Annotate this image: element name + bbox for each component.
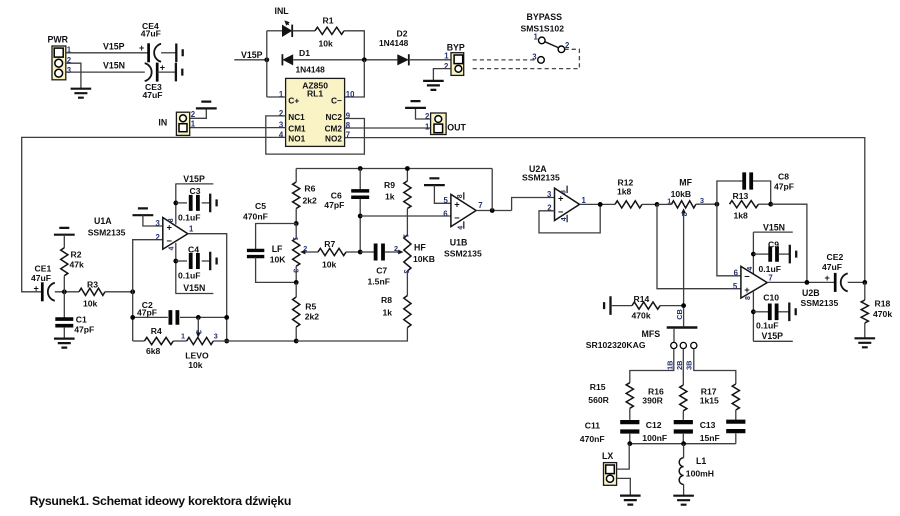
svg-text:−: − bbox=[167, 235, 173, 246]
svg-text:C3: C3 bbox=[190, 186, 201, 196]
op-amp U1A SSM2135 bbox=[88, 216, 194, 250]
wire U1A power bottom to C4 node bbox=[175, 243, 177, 294]
wire C6 to U1B pin6 bbox=[360, 215, 451, 217]
svg-text:100nF: 100nF bbox=[642, 433, 667, 443]
ground right of C10 bbox=[789, 303, 795, 322]
svg-text:2k2: 2k2 bbox=[305, 312, 320, 322]
svg-text:4: 4 bbox=[561, 217, 568, 221]
capacitor C6 47pF bbox=[324, 169, 369, 253]
node C2 left junction bbox=[130, 315, 135, 320]
svg-text:C7: C7 bbox=[376, 266, 387, 276]
node C4 junction bbox=[173, 259, 178, 264]
svg-text:V15N: V15N bbox=[763, 222, 785, 232]
svg-text:2: 2 bbox=[444, 62, 449, 71]
connector IN bbox=[158, 110, 195, 135]
capacitor C2 47pF bbox=[133, 300, 227, 325]
node C11/LX junction bbox=[627, 441, 632, 446]
relay RL1 AZ850 bbox=[286, 78, 345, 146]
node C6 / U1B pin6 junction bbox=[358, 214, 363, 219]
svg-text:47pF: 47pF bbox=[774, 182, 794, 192]
node R7/C7 junction bbox=[358, 250, 363, 255]
resistor R15 560R bbox=[588, 382, 633, 420]
svg-text:47pF: 47pF bbox=[324, 200, 344, 210]
svg-text:2: 2 bbox=[155, 233, 160, 242]
capacitor C5 470nF bbox=[243, 201, 296, 282]
svg-text:NO2: NO2 bbox=[325, 135, 342, 144]
switch MFS SR102320KAG bbox=[586, 309, 698, 370]
svg-text:47uF: 47uF bbox=[143, 90, 163, 100]
svg-text:CM2: CM2 bbox=[325, 125, 343, 134]
svg-text:HF: HF bbox=[414, 243, 426, 253]
svg-text:6: 6 bbox=[734, 268, 739, 277]
wire relay CM2 to OUT pin1 bbox=[345, 127, 431, 129]
wire MF pin3 to R13 node bbox=[696, 203, 717, 205]
potentiometer MF 10kB bbox=[657, 178, 704, 327]
svg-text:6: 6 bbox=[443, 210, 448, 219]
svg-text:8: 8 bbox=[745, 296, 752, 300]
svg-text:15nF: 15nF bbox=[700, 433, 720, 443]
svg-text:8: 8 bbox=[168, 218, 175, 222]
svg-text:1: 1 bbox=[191, 120, 196, 129]
svg-text:1k: 1k bbox=[385, 191, 395, 201]
svg-text:C1: C1 bbox=[76, 315, 87, 325]
svg-text:SMS1S102: SMS1S102 bbox=[521, 24, 565, 34]
svg-text:D1: D1 bbox=[299, 48, 310, 58]
connector PWR bbox=[48, 35, 72, 80]
node R13/C8 right junction bbox=[768, 202, 773, 207]
svg-text:−: − bbox=[744, 271, 750, 282]
svg-text:+: + bbox=[825, 273, 830, 283]
wire U2B output bbox=[767, 281, 835, 283]
svg-text:7: 7 bbox=[478, 201, 482, 210]
svg-text:V15P: V15P bbox=[762, 331, 784, 341]
svg-text:NO1: NO1 bbox=[288, 135, 305, 144]
svg-text:R18: R18 bbox=[875, 299, 891, 309]
ground above OUT pin2 bbox=[405, 101, 426, 108]
svg-text:L1: L1 bbox=[696, 456, 706, 466]
svg-text:10KB: 10KB bbox=[413, 254, 435, 264]
node C3 junction bbox=[173, 201, 178, 206]
svg-text:NC1: NC1 bbox=[288, 113, 305, 122]
ground below BYP pin2 bbox=[423, 81, 444, 90]
svg-text:390R: 390R bbox=[642, 396, 663, 406]
resistor R12 1k8 bbox=[615, 177, 657, 208]
wire junction down to relay pin10 bbox=[345, 60, 365, 97]
resistor R13 1k8 bbox=[730, 191, 771, 221]
wire feedback node to output bbox=[771, 204, 807, 282]
svg-text:BYP: BYP bbox=[447, 42, 465, 52]
ground right of C4 bbox=[210, 252, 216, 271]
svg-text:LEVO: LEVO bbox=[185, 351, 209, 361]
svg-text:C9: C9 bbox=[768, 239, 779, 249]
wire CE2 to R18 node bbox=[848, 281, 865, 283]
ground below L1 bbox=[673, 496, 694, 505]
svg-text:C6: C6 bbox=[331, 190, 342, 200]
wire V15N rail down to C9 node bbox=[752, 232, 754, 274]
resistor R5 2k2 bbox=[293, 282, 320, 341]
wire relay NO2 long right wire bbox=[345, 138, 865, 283]
svg-text:560R: 560R bbox=[588, 395, 609, 405]
svg-text:47uF: 47uF bbox=[31, 273, 51, 283]
rail V15N above C9 bbox=[753, 222, 792, 232]
svg-text:470k: 470k bbox=[632, 310, 651, 320]
svg-text:1.5nF: 1.5nF bbox=[368, 277, 390, 287]
svg-text:R6: R6 bbox=[304, 184, 315, 194]
capacitor C11 470nF bbox=[580, 421, 640, 444]
svg-text:10: 10 bbox=[346, 90, 355, 99]
svg-text:1N4148: 1N4148 bbox=[379, 38, 409, 48]
wire CE3 to ground bbox=[157, 71, 176, 73]
svg-text:C5: C5 bbox=[255, 201, 266, 211]
svg-text:R14: R14 bbox=[634, 294, 650, 304]
svg-text:+: + bbox=[160, 62, 165, 72]
svg-text:2B: 2B bbox=[675, 361, 684, 370]
svg-text:INL: INL bbox=[275, 6, 290, 16]
resistor R6 2k2 bbox=[293, 169, 317, 224]
resistor R8 1k bbox=[296, 271, 411, 341]
svg-text:D2: D2 bbox=[397, 28, 408, 38]
op-amp U2A SSM2135 bbox=[522, 164, 587, 223]
inductor L1 100mH bbox=[679, 444, 714, 496]
wire INL branch top bbox=[267, 30, 282, 32]
svg-text:470nF: 470nF bbox=[580, 434, 605, 444]
wire relay NC1-NC2 loop bbox=[266, 116, 365, 154]
wire BYP pin2 to ground bbox=[433, 69, 451, 81]
svg-text:R13: R13 bbox=[733, 191, 749, 201]
svg-text:MFS: MFS bbox=[642, 329, 661, 339]
svg-text:470nF: 470nF bbox=[243, 211, 268, 221]
capacitor C12 100nF bbox=[642, 420, 693, 444]
svg-text:R9: R9 bbox=[384, 180, 395, 190]
wire INL to R1 bbox=[292, 30, 315, 32]
ground above IN pin2 bbox=[196, 102, 217, 109]
svg-text:5: 5 bbox=[443, 196, 448, 205]
capacitor CE3 47uF bbox=[143, 62, 166, 100]
node C10 junction bbox=[751, 309, 756, 314]
node U1B output junction bbox=[490, 208, 495, 213]
svg-text:R2: R2 bbox=[71, 250, 82, 260]
rail V15N below C4 bbox=[175, 283, 213, 293]
svg-text:V15P: V15P bbox=[241, 50, 263, 60]
svg-text:+: + bbox=[744, 284, 750, 295]
node R5 bottom bbox=[294, 339, 299, 344]
wire relay NO1 long left wire down to CE1 bbox=[22, 137, 286, 291]
wire U1B output bbox=[476, 210, 512, 212]
connector OUT bbox=[425, 112, 466, 135]
wire V15P stub to junction bbox=[234, 59, 266, 61]
svg-text:SSM2135: SSM2135 bbox=[801, 298, 839, 308]
svg-text:IN: IN bbox=[158, 118, 167, 128]
ground at U1A pin3 bbox=[133, 208, 163, 226]
node feedback/bottom junction bbox=[224, 339, 229, 344]
svg-text:7: 7 bbox=[768, 273, 772, 282]
capacitor C13 15nF bbox=[700, 420, 746, 444]
svg-text:47pF: 47pF bbox=[137, 307, 157, 317]
svg-text:R4: R4 bbox=[151, 326, 162, 336]
node C12/L1 junction bbox=[681, 441, 686, 446]
wire V15N from PWR pin3 to CE3 bbox=[66, 71, 145, 73]
ground right of C3 bbox=[210, 194, 216, 213]
wire LX pin2 to ground bbox=[617, 478, 631, 495]
wire U1A power top to C3 node bbox=[175, 184, 177, 225]
resistor R2 47k bbox=[61, 235, 84, 292]
capacitor C10 0.1uF bbox=[753, 293, 789, 331]
capacitor C8 47pF bbox=[717, 171, 794, 204]
wire LEVO to R5 bottom node bbox=[213, 340, 296, 342]
potentiometer LEVO 10k bbox=[181, 317, 218, 370]
ground below PWR pin2 bbox=[71, 89, 92, 98]
svg-text:U2B: U2B bbox=[802, 288, 820, 298]
svg-text:C8: C8 bbox=[778, 171, 789, 181]
resistor R7 10k bbox=[318, 239, 360, 269]
ground above R2 bbox=[54, 228, 75, 235]
svg-text:4: 4 bbox=[457, 226, 464, 230]
svg-text:+: + bbox=[34, 283, 39, 293]
svg-text:4: 4 bbox=[747, 267, 754, 271]
svg-text:SSM2135: SSM2135 bbox=[522, 172, 560, 182]
wire dashed BYP pin2 to switch pin2 bbox=[473, 49, 580, 68]
svg-text:1: 1 bbox=[582, 196, 587, 205]
svg-text:LF: LF bbox=[272, 244, 283, 254]
switch BYPASS SMS1S102 bbox=[521, 12, 571, 63]
wire D2 to BYP pin1 bbox=[410, 59, 454, 61]
svg-text:C11: C11 bbox=[585, 421, 601, 431]
wire U2B power bottom to C10 bbox=[752, 291, 754, 341]
wire feedback up from output node bbox=[491, 169, 493, 211]
svg-text:1B: 1B bbox=[665, 361, 674, 370]
capacitor C7 1.5nF bbox=[360, 244, 397, 287]
svg-text:−: − bbox=[454, 212, 460, 223]
node R9 top junction bbox=[405, 166, 410, 171]
node R1/D2 junction bbox=[362, 57, 367, 62]
svg-text:1: 1 bbox=[425, 123, 430, 132]
svg-text:10k: 10k bbox=[83, 298, 98, 308]
svg-text:3: 3 bbox=[532, 52, 537, 61]
wire node up to U1A pin2 and down to bottom wire bbox=[133, 240, 163, 341]
svg-text:6k8: 6k8 bbox=[146, 346, 161, 356]
diode D2 1N4148 bbox=[379, 28, 409, 65]
svg-text:SSM2135: SSM2135 bbox=[88, 227, 126, 237]
svg-text:10k: 10k bbox=[188, 360, 203, 370]
svg-text:V15N: V15N bbox=[103, 61, 125, 71]
node feedback/wiper junction bbox=[224, 315, 229, 320]
svg-text:C−: C− bbox=[331, 95, 342, 105]
svg-text:0.1uF: 0.1uF bbox=[756, 321, 778, 331]
svg-text:8: 8 bbox=[457, 194, 464, 198]
capacitor C4 0.1uF bbox=[176, 245, 210, 281]
ground right of CE4 bbox=[176, 44, 182, 63]
svg-text:1k15: 1k15 bbox=[700, 396, 719, 406]
svg-text:3: 3 bbox=[214, 332, 218, 341]
node input node bbox=[62, 289, 67, 294]
node V15P junction bbox=[264, 57, 269, 62]
svg-text:0.1uF: 0.1uF bbox=[178, 212, 200, 222]
LED INL bbox=[275, 6, 293, 37]
svg-text:SR102320KAG: SR102320KAG bbox=[586, 340, 646, 350]
node U2A output bbox=[598, 202, 603, 207]
svg-text:R1: R1 bbox=[323, 15, 334, 25]
node LF bottom bbox=[294, 280, 299, 285]
connector LX bbox=[602, 451, 617, 486]
svg-text:5: 5 bbox=[733, 282, 738, 291]
svg-text:C12: C12 bbox=[646, 420, 662, 430]
node C9 junction bbox=[751, 252, 756, 257]
svg-text:1: 1 bbox=[534, 33, 539, 42]
ground below LX bbox=[620, 496, 641, 505]
svg-text:2: 2 bbox=[279, 109, 284, 118]
svg-text:1: 1 bbox=[189, 225, 194, 234]
resistor R17 1k15 bbox=[700, 384, 740, 420]
connector BYP bbox=[444, 42, 465, 75]
svg-text:10k: 10k bbox=[319, 39, 334, 49]
node LEVO wiper junction bbox=[196, 315, 201, 320]
wire bottom feedback wire bbox=[133, 340, 145, 342]
svg-text:LX: LX bbox=[602, 451, 613, 461]
svg-text:3: 3 bbox=[67, 66, 72, 75]
ground right of C9 bbox=[790, 245, 796, 264]
svg-text:4: 4 bbox=[168, 247, 175, 251]
wire CE1 to node bbox=[55, 291, 79, 293]
svg-text:1: 1 bbox=[181, 332, 185, 341]
wire MFS 3B to R17 bbox=[694, 349, 736, 384]
wire U2A feedback loop bbox=[539, 204, 600, 233]
capacitor C9 0.1uF bbox=[753, 239, 789, 274]
svg-text:3: 3 bbox=[292, 269, 301, 273]
wire LX pin1 to bank bbox=[617, 444, 630, 469]
resistor R16 390R bbox=[642, 385, 687, 420]
resistor R1 10k bbox=[315, 15, 344, 48]
svg-text:3: 3 bbox=[402, 270, 411, 274]
rail V15P above C3 bbox=[175, 174, 213, 184]
ground below C1 bbox=[54, 339, 75, 348]
wire MFS 2B to R16 bbox=[682, 349, 684, 385]
svg-text:2k2: 2k2 bbox=[303, 196, 318, 206]
svg-text:Rysunek1. Schemat ideowy korek: Rysunek1. Schemat ideowy korektora dźwię… bbox=[30, 494, 292, 508]
wire dashed BYP pin1 to switch pin3 bbox=[473, 59, 537, 61]
svg-text:+: + bbox=[454, 199, 460, 210]
svg-text:V15P: V15P bbox=[103, 41, 125, 51]
node LF top bbox=[294, 221, 299, 226]
wire node down to U2B pin5 bbox=[657, 204, 741, 288]
ground right of CE3 bbox=[176, 63, 182, 82]
resistor R18 470k bbox=[861, 282, 892, 338]
svg-text:R7: R7 bbox=[324, 239, 335, 249]
svg-text:R3: R3 bbox=[87, 280, 98, 290]
potentiometer LF 10K bbox=[270, 224, 318, 283]
wire U2A output bbox=[580, 203, 616, 205]
node output/CE2 junction bbox=[805, 280, 810, 285]
svg-text:1: 1 bbox=[291, 237, 300, 241]
svg-text:R5: R5 bbox=[305, 301, 316, 311]
capacitor C3 0.1uF bbox=[176, 186, 210, 222]
svg-text:2: 2 bbox=[394, 244, 398, 253]
potentiometer HF 10KB bbox=[394, 234, 435, 274]
svg-text:100mH: 100mH bbox=[686, 468, 714, 478]
svg-text:C13: C13 bbox=[700, 420, 716, 430]
svg-text:C10: C10 bbox=[763, 293, 779, 303]
wire CE4 to ground bbox=[161, 52, 176, 54]
wire U1B output to U2A pin3 bbox=[512, 198, 555, 211]
svg-text:MF: MF bbox=[679, 178, 692, 188]
wire OUT pin2 to ground bbox=[416, 108, 431, 119]
resistor R4 6k8 bbox=[144, 326, 173, 356]
wire IN pin1 to relay CM1 bbox=[186, 127, 286, 129]
svg-text:C+: C+ bbox=[288, 95, 299, 105]
wire U1A output down to feedback bbox=[188, 234, 227, 341]
svg-text:47uF: 47uF bbox=[822, 262, 842, 272]
node R12/MF junction bbox=[655, 202, 660, 207]
svg-text:8: 8 bbox=[560, 190, 567, 194]
wire bottom bank wire bbox=[630, 443, 736, 445]
svg-text:1: 1 bbox=[444, 52, 449, 61]
svg-text:47uF: 47uF bbox=[141, 28, 161, 38]
ground at U1B pin5 bbox=[424, 178, 451, 203]
diode D1 1N4148 bbox=[282, 48, 325, 75]
svg-text:1: 1 bbox=[279, 90, 284, 99]
svg-text:PWR: PWR bbox=[48, 35, 69, 45]
svg-text:BYPASS: BYPASS bbox=[527, 12, 563, 22]
svg-text:R8: R8 bbox=[381, 295, 392, 305]
svg-text:10k: 10k bbox=[322, 259, 337, 269]
node MF3/R13/C8 junction bbox=[715, 202, 720, 207]
relay pin number labels bbox=[279, 90, 355, 140]
svg-text:10kB: 10kB bbox=[671, 189, 692, 199]
svg-text:1: 1 bbox=[401, 234, 410, 238]
svg-text:C4: C4 bbox=[188, 245, 199, 255]
svg-text:NC2: NC2 bbox=[326, 113, 343, 122]
svg-text:R15: R15 bbox=[590, 382, 606, 392]
wire node down to U2B pin6 bbox=[717, 204, 741, 276]
svg-text:U1A: U1A bbox=[94, 216, 112, 226]
svg-text:CE2: CE2 bbox=[827, 252, 844, 262]
svg-text:2: 2 bbox=[680, 212, 689, 216]
op-amp U2B SSM2135 bbox=[733, 266, 839, 308]
node R3 / U1A pin2 junction bbox=[130, 289, 135, 294]
wire R1 to right corner down to main line bbox=[344, 31, 364, 60]
svg-text:1N4148: 1N4148 bbox=[296, 65, 326, 75]
svg-text:1k: 1k bbox=[383, 307, 393, 317]
svg-text:3: 3 bbox=[155, 219, 160, 228]
wire PWR pin2 to ground bbox=[66, 63, 81, 88]
svg-text:1k8: 1k8 bbox=[734, 210, 749, 220]
rail V15P below C10 bbox=[753, 331, 792, 342]
wire top feedback rail bbox=[296, 168, 492, 170]
svg-text:3: 3 bbox=[700, 196, 704, 205]
node C6 top junction bbox=[358, 166, 363, 171]
wire MFS 1B to R15 bbox=[630, 349, 674, 383]
capacitor CE2 47uF bbox=[822, 252, 848, 292]
svg-text:RL1: RL1 bbox=[307, 89, 323, 99]
ground left of R14 bbox=[604, 296, 610, 315]
wire D1 to D2 bbox=[293, 59, 397, 61]
svg-text:V15P: V15P bbox=[183, 174, 205, 184]
wire junction up to INL branch and down to relay pin1 bbox=[266, 31, 268, 97]
svg-text:SSM2135: SSM2135 bbox=[444, 248, 482, 258]
capacitor CE1 47uF bbox=[31, 264, 55, 302]
svg-text:OUT: OUT bbox=[447, 123, 466, 133]
svg-text:2: 2 bbox=[195, 330, 204, 334]
ground below R18 bbox=[855, 338, 876, 347]
capacitor CE4 47uF bbox=[139, 21, 161, 63]
resistor R14 470k bbox=[611, 294, 684, 320]
svg-text:47k: 47k bbox=[70, 260, 85, 270]
resistor R9 1k bbox=[384, 169, 411, 236]
svg-text:U1B: U1B bbox=[450, 237, 468, 247]
svg-text:−: − bbox=[558, 206, 564, 217]
node CE2/R18 junction bbox=[862, 280, 867, 285]
svg-text:2: 2 bbox=[565, 41, 570, 50]
svg-text:2: 2 bbox=[303, 244, 307, 253]
